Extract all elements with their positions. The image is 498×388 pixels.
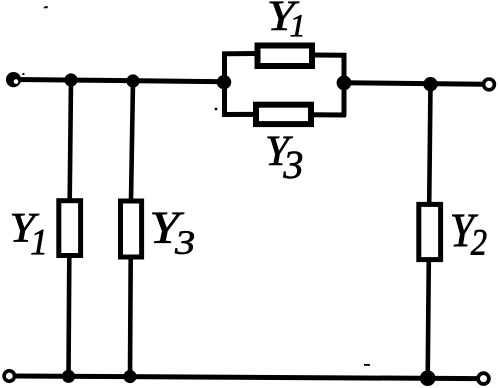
wire parallel right lower lead [311,112,346,117]
terminal input top-left [6,72,21,87]
wire shunt Y2 lower [428,260,429,378]
terminal bottom-left [4,371,14,381]
terminal output top-right [484,79,495,90]
admittance box Y2 shunt [419,204,441,259]
admittance box Y1 series (top of parallel pair) [258,46,313,67]
wire shunt 1 upper [70,80,71,200]
label Y2 right shunt (letter Y) [452,215,478,246]
admittance box Y3 series (bottom of parallel pair) [256,105,311,124]
terminal bottom-right [478,373,489,384]
admittance box Y1 shunt [59,201,81,256]
label Y2 right shunt (subscript 2) [471,230,487,255]
label Y3 below parallel pair (subscript 3) [283,152,302,179]
node junction top B [126,74,139,87]
wire shunt Y2 upper [429,84,430,204]
wire shunt 2 upper [131,81,133,200]
node junction bottom A [62,370,75,383]
speck near input terminal [22,73,24,75]
label Y1 top (letter Y) [270,2,300,30]
wire parallel left riser [225,54,259,114]
label Y3 left shunt (letter Y) [152,213,184,243]
node parallel left [217,75,231,89]
speck dash above bottom wire [364,364,370,366]
wire bottom [16,376,477,379]
wire parallel left lower lead [222,112,258,117]
speck dash top [44,6,48,8]
wire top-left segment [16,80,226,82]
label Y3 left shunt (subscript 3) [175,231,194,254]
label Y3 below parallel pair (letter Y) [268,137,293,165]
speck dot left of parallel [215,108,218,111]
wire parallel right riser [313,55,344,116]
node junction bottom B [123,370,136,383]
label Y1 left shunt (letter Y) [12,214,39,242]
label Y1 top (subscript 1) [291,15,302,36]
node parallel right [337,76,352,91]
wire shunt 2 lower [128,258,133,377]
admittance box Y3 shunt [121,201,142,257]
node junction top A [64,73,77,86]
label Y1 left shunt (subscript 1) [32,230,45,254]
node junction top-right [423,77,437,91]
wire top-right segment [342,83,484,85]
node junction bottom right [420,370,436,386]
wire shunt 1 lower [66,257,71,376]
